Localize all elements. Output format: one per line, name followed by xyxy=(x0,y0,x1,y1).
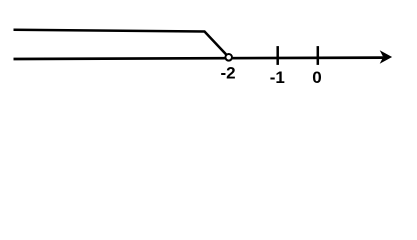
svg-text:-1: -1 xyxy=(270,68,285,87)
ray above line (x < -2) xyxy=(14,30,227,55)
tick -1 xyxy=(276,46,279,65)
arrowhead right xyxy=(380,50,392,63)
number line xyxy=(14,58,384,59)
tick 0 xyxy=(317,46,320,65)
svg-text:-2: -2 xyxy=(220,64,235,83)
open circle at -2 xyxy=(225,54,232,61)
svg-text:0: 0 xyxy=(312,68,321,87)
